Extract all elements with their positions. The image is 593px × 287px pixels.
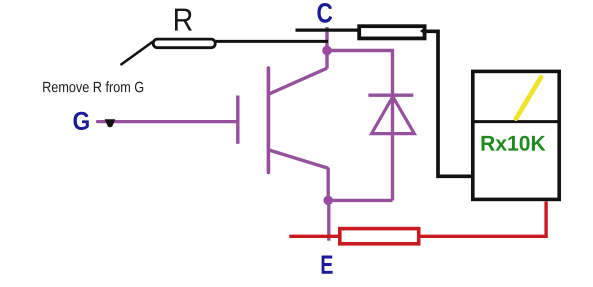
junction node E dot [323,196,333,206]
diode D1 cathode bar [368,94,413,97]
wire emitter vertical [327,168,330,201]
transistor Q1 IGBT gate bar [236,96,239,144]
wire red left of shunt [289,235,339,238]
resistor series (top right) [359,26,424,38]
wire node C to series resistor [296,29,359,32]
wire diode bottom to node E [328,199,392,202]
resistor shunt (red) [340,229,419,244]
label R [175,9,192,31]
wire gate lead [98,120,238,123]
wire switch diagonal [121,42,154,66]
arrow inside series resistor [420,28,424,34]
multimeter needle [516,77,541,118]
transistor Q1 emitter diagonal [269,150,328,168]
multimeter divider [471,120,561,123]
wire node E down to shunt [327,200,330,240]
multimeter range label Rx10K [482,136,546,151]
note text Remove R from G [43,81,143,92]
wire from R to node C [216,40,328,43]
wire collector vertical to node C [325,27,328,69]
wire node C to diode top [327,51,393,201]
wire red right of shunt to meter [419,202,546,237]
transistor Q1 IGBT body bar [267,68,271,173]
node C label [317,3,332,23]
multimeter box [473,71,559,199]
arrow marker on gate wire [105,119,116,127]
junction node C dot [322,46,332,56]
transistor Q1 collector diagonal [269,68,327,94]
diode D1 triangle [372,97,415,134]
resistor R [153,39,215,48]
node G label [74,112,89,130]
node E label [322,256,333,274]
wire series resistor to meter [425,31,472,176]
